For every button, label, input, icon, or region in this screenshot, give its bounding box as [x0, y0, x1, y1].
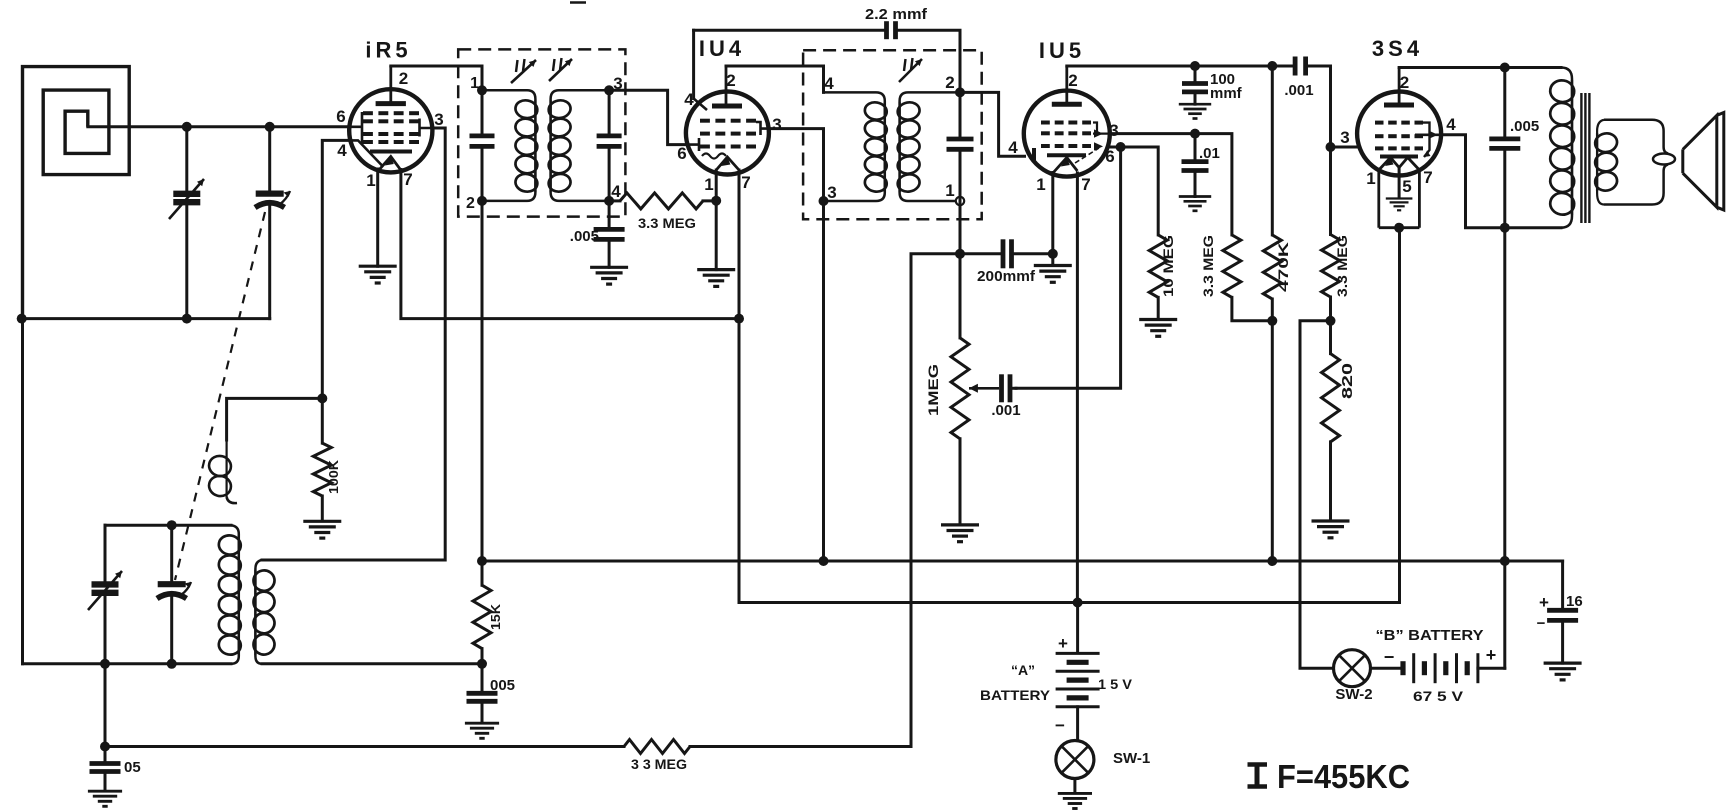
- label IF=455KC: [1248, 758, 1411, 795]
- junction R2 / 1U4 pin1: [711, 196, 721, 206]
- svg-text:2: 2: [466, 195, 475, 212]
- svg-text:.005: .005: [570, 228, 599, 245]
- oscillator tickler coil: [207, 440, 237, 503]
- ground 16 mfd: [1544, 663, 1582, 680]
- label 100K: [326, 459, 341, 494]
- loop antenna spiral: [23, 67, 130, 319]
- 1U4 pin 3: [772, 115, 781, 134]
- label 15K: [488, 603, 503, 630]
- wire C4 top lead: [104, 525, 107, 581]
- wire 3.3MEG2 top: [1329, 147, 1332, 235]
- wire T1 C4 bottom: [608, 149, 611, 201]
- 1R5 grids: [363, 113, 419, 142]
- 3S4 pin4 arrow: [1415, 131, 1441, 139]
- svg-text:4: 4: [611, 182, 621, 201]
- svg-text:+: +: [1539, 593, 1549, 612]
- 3S4 filament return box: [1379, 170, 1420, 228]
- wire AVC bus vertical: [911, 254, 960, 747]
- wire 2.2mmf right to T2 pin2: [899, 30, 960, 92]
- 1R5 pin 2: [399, 69, 408, 88]
- label tube 1U4: [699, 36, 745, 61]
- label 3.3 MEG vertical 1: [1200, 235, 1216, 297]
- wire SW-2 to B battery: [1371, 667, 1404, 670]
- tube 1U4 envelope: [686, 92, 769, 175]
- wire 1U5 pin7 to filament rail: [1076, 173, 1079, 603]
- svg-text:1 5 V: 1 5 V: [1098, 676, 1133, 692]
- label mmf: [1210, 85, 1243, 102]
- junction .005 top: [1500, 63, 1510, 73]
- wire T2 pin2 to 1U5 pin4: [960, 92, 1025, 156]
- junction filament box: [1394, 223, 1404, 233]
- svg-text:7: 7: [403, 170, 412, 189]
- svg-text:4: 4: [1008, 138, 1018, 157]
- wire antenna return down left side: [21, 319, 24, 664]
- 1U4 grid bracket: [687, 138, 700, 151]
- wire 200mmf left: [960, 252, 1000, 255]
- osc pickup coil: [255, 560, 262, 664]
- wire 3S4 screen to B+: [1441, 135, 1505, 228]
- capacitor C1 RF tuning (variable): [173, 194, 200, 202]
- capacitor T1 secondary padding: [597, 136, 622, 147]
- ground 1 MEG: [941, 525, 979, 542]
- svg-text:.001: .001: [991, 402, 1020, 419]
- wire B+ riser from battery: [1503, 228, 1506, 669]
- 3S4 pin 2: [1400, 73, 1409, 92]
- label 1 MEG: [925, 364, 941, 416]
- wire .005 top: [481, 664, 484, 691]
- junction 100K / tickler: [317, 393, 327, 403]
- ground .01: [1179, 197, 1211, 211]
- label 470K: [1275, 242, 1291, 292]
- T1 pin 3: [613, 74, 622, 93]
- 1R5 filament: [379, 157, 401, 171]
- wire .05 to ground: [104, 774, 107, 790]
- T1 pin 3 node: [604, 85, 614, 95]
- 1R5 pin 3: [434, 110, 443, 129]
- wire 1U4 pin4 feedback riser: [692, 30, 695, 98]
- wire 1R5 pin1 to ground: [376, 169, 379, 266]
- wire C6 to ground: [608, 242, 611, 267]
- svg-text:3: 3: [1340, 128, 1349, 147]
- svg-text:+: +: [1486, 645, 1497, 665]
- wire 1U4 pin1 to ground: [715, 170, 718, 270]
- capacitor 200 mmf: [1003, 239, 1012, 268]
- 1U5 pin 7: [1081, 175, 1090, 194]
- wire C2 bottom lead: [268, 206, 271, 319]
- svg-text:.01: .01: [1199, 145, 1220, 162]
- capacitor .001 AF coupling: [1002, 374, 1011, 402]
- svg-text:“A”: “A”: [1011, 662, 1035, 678]
- junction AVC rail / antenna return: [17, 314, 27, 324]
- wire A battery top: [1076, 603, 1079, 652]
- wire 3.3MEG to 470K: [1232, 297, 1272, 320]
- label A: [1011, 662, 1035, 678]
- T2 pin 2 node: [955, 87, 965, 97]
- svg-text:.001: .001: [1284, 82, 1313, 99]
- battery B 67.5V: [1403, 653, 1478, 683]
- wire 3S4 pin5 lead: [1398, 168, 1401, 198]
- svg-text:BATTERY: BATTERY: [980, 687, 1051, 703]
- wire 15K bottom: [481, 649, 484, 664]
- svg-text:2: 2: [399, 69, 408, 88]
- wire 1R5 pin7 filament rail: [401, 170, 739, 319]
- junction filament rail / 1U4 pin7: [734, 314, 744, 324]
- wire 1R5 pin3 to osc pickup coil: [262, 128, 445, 560]
- wire T1 pin3 to 1U4 pin6: [609, 90, 686, 144]
- svg-text:F=455KC: F=455KC: [1277, 758, 1410, 795]
- label .001 AF: [991, 402, 1020, 419]
- junction C1 / AVC rail: [182, 314, 192, 324]
- svg-text:“B” BATTERY: “B” BATTERY: [1376, 627, 1484, 644]
- wire 16mfd to ground: [1561, 623, 1564, 663]
- svg-text:6: 6: [336, 107, 345, 126]
- wire 100mmf top: [1194, 66, 1197, 81]
- svg-text:3: 3: [1109, 121, 1118, 140]
- 1R5 pin 7: [403, 170, 412, 189]
- label .01: [1199, 145, 1220, 162]
- 1U4 grids: [700, 121, 756, 147]
- svg-text:3: 3: [434, 110, 443, 129]
- resistor 820: [1322, 354, 1340, 442]
- T3 secondary loops: [1594, 132, 1619, 193]
- T3 secondary / voice coil: [1597, 120, 1675, 205]
- svg-text:7: 7: [741, 173, 750, 192]
- junction T2 pin1 / 200mmf / 1MEG: [955, 249, 965, 259]
- 1U5 pin 6: [1105, 147, 1114, 166]
- wire 100K top: [321, 398, 324, 443]
- svg-text:2: 2: [1400, 73, 1409, 92]
- label + 16mfd: [1539, 593, 1549, 612]
- T1 trimmer arrow left: [511, 60, 536, 83]
- wire T1 C3 bottom: [481, 149, 484, 201]
- wire 100mmf to ground: [1194, 94, 1197, 104]
- svg-text:1: 1: [366, 171, 375, 190]
- IF transformer T2 shield (dashed): [803, 50, 982, 219]
- capacitor 100 mmf: [1182, 84, 1208, 92]
- label 005: [490, 677, 515, 694]
- label tube 3S4: [1372, 36, 1423, 61]
- 1R5 pin 6: [336, 107, 345, 126]
- svg-text:3S4: 3S4: [1372, 36, 1423, 61]
- 1R5 grid cap bar: [370, 150, 412, 154]
- wire 820 to ground: [1329, 442, 1332, 520]
- 1U5 pin 1: [1036, 175, 1045, 194]
- node antenna/C1: [182, 122, 192, 132]
- junction screen line / B+ rail: [819, 556, 829, 566]
- wire 1U4 plate to T2 pin4: [726, 66, 824, 92]
- resistor R2 3.3 MEG: [620, 193, 703, 209]
- svg-text:3: 3: [772, 115, 781, 134]
- T2 pin 4: [824, 74, 834, 93]
- wire 100K to ground: [321, 496, 324, 520]
- svg-text:2.2 mmf: 2.2 mmf: [865, 6, 928, 23]
- resistor 15K: [473, 585, 491, 648]
- resistor 3.3 MEG (grid): [1322, 235, 1340, 298]
- wire 1U5 plate rail: [1067, 65, 1295, 68]
- resistor 10 MEG: [1149, 235, 1167, 298]
- svg-text:820: 820: [1339, 363, 1356, 399]
- wire 1U4 screen to B+ rail: [769, 129, 824, 561]
- junction 3.3MEG2/820/SW2: [1326, 316, 1336, 326]
- wire B+ rail: [482, 560, 1563, 563]
- label 200 mmf: [977, 268, 1036, 285]
- wire T2 pin1 down: [959, 201, 962, 254]
- wire 3.3MEG2 bottom: [1329, 297, 1332, 321]
- wire 1R5 plate to T1 pin1: [391, 66, 482, 90]
- wire T3 primary bottom: [1505, 226, 1561, 229]
- wire C5 top lead: [170, 525, 173, 581]
- speaker: [1683, 113, 1724, 211]
- wire C4 bottom lead: [104, 594, 107, 664]
- svg-text:−: −: [1055, 716, 1065, 735]
- 1U4 pin 7: [741, 173, 750, 192]
- pickup coil loops: [252, 569, 276, 657]
- wire 10MEG to ground: [1157, 297, 1160, 318]
- wire SW-1 to ground: [1073, 779, 1076, 793]
- ground 1U5 pin 1: [1034, 266, 1072, 283]
- wire B battery to B+ riser: [1478, 667, 1505, 670]
- wire C1 top lead: [185, 127, 188, 191]
- label tube 1R5: [365, 38, 411, 63]
- 3S4 grids: [1375, 123, 1423, 149]
- 1MEG wiper arrow: [969, 384, 999, 393]
- wire .001 right: [1013, 387, 1016, 390]
- wire AVC bus bottom left: [105, 745, 624, 748]
- 3S4 pin 3: [1340, 128, 1349, 147]
- label 2.2 mmf: [865, 6, 928, 23]
- wire .005 to ground: [481, 704, 484, 723]
- T3 core: [1581, 93, 1589, 223]
- svg-text:100K: 100K: [326, 459, 341, 494]
- wire tickler top: [227, 398, 323, 440]
- potentiometer 1 MEG: [951, 338, 969, 439]
- wire 1U5 pin3: [1110, 134, 1232, 235]
- svg-text:5: 5: [1402, 177, 1411, 196]
- label SW-1: [1113, 750, 1150, 767]
- wire .001 to 3S4 grid: [1306, 66, 1331, 147]
- svg-text:−: −: [1537, 615, 1546, 632]
- svg-text:4: 4: [824, 74, 834, 93]
- svg-text:200mmf: 200mmf: [977, 268, 1036, 285]
- wire tank bottom: [23, 662, 232, 665]
- label + B battery: [1486, 645, 1497, 665]
- ground 1R5 pin 1: [359, 266, 397, 283]
- label - B battery: [1384, 647, 1395, 667]
- wire T2 C7 bottom: [959, 152, 962, 201]
- capacitor C6 .005: [594, 229, 625, 239]
- wire T1 pin4 to R2: [609, 199, 620, 202]
- 1R5 pin4 lead-in: [350, 140, 383, 166]
- label 3.3 MEG vertical 2: [1334, 235, 1350, 297]
- T3 primary: [1561, 68, 1572, 228]
- junction 3S4 grid: [1326, 142, 1336, 152]
- wire C5 bottom lead: [170, 596, 173, 664]
- capacitor T2 tuning: [947, 139, 974, 149]
- svg-text:SW-1: SW-1: [1113, 750, 1150, 767]
- capacitor .001 coupling: [1295, 57, 1306, 76]
- wire .05 top: [104, 747, 107, 762]
- 1U5 pin 4: [1008, 138, 1018, 157]
- T1 pin 1 node: [477, 85, 487, 95]
- svg-text:1: 1: [470, 75, 479, 92]
- svg-text:−: −: [1384, 647, 1395, 667]
- 1R5 grid bracket right: [420, 119, 433, 137]
- svg-text:3.3 MEG: 3.3 MEG: [638, 215, 696, 231]
- svg-text:6: 6: [1105, 147, 1114, 166]
- 1U5 pin 2: [1068, 71, 1077, 90]
- wire 470K top: [1271, 66, 1274, 235]
- svg-text:1: 1: [1036, 175, 1045, 194]
- 1R5 grid bracket left: [350, 112, 362, 144]
- node antenna/C2: [265, 122, 275, 132]
- T2 primary winding: [824, 92, 885, 201]
- wire .005 top lead: [1503, 68, 1506, 137]
- svg-text:.005: .005: [1510, 118, 1539, 135]
- 1U4 filament: [716, 157, 739, 170]
- ground .05: [88, 791, 122, 806]
- resistor 100K: [313, 443, 331, 496]
- capacitor 2.2 mmf: [887, 21, 896, 39]
- junction 1U5 pin6: [1116, 142, 1126, 152]
- resistor 470K: [1263, 235, 1281, 299]
- wire 1U5 pin1 to ground: [1051, 173, 1054, 265]
- wire to 3S4 pin3: [1331, 146, 1360, 149]
- label SW-2: [1335, 686, 1372, 703]
- 1U5 diode plate: [1034, 148, 1086, 162]
- wire 3S4 plate to output transformer: [1399, 66, 1505, 69]
- switch SW-2: [1334, 650, 1371, 687]
- 1U5 filament: [1054, 158, 1078, 173]
- svg-text:IU5: IU5: [1039, 38, 1085, 63]
- ground 3S4 pin 5: [1386, 199, 1413, 211]
- label BATTERY A: [980, 687, 1051, 703]
- wire 16mfd top: [1561, 561, 1564, 608]
- wire 200mmf right: [1015, 252, 1053, 255]
- T1 pin 2 node: [477, 196, 487, 206]
- ground SW-1: [1058, 793, 1092, 808]
- junction 470K: [1267, 61, 1277, 71]
- wire to T3 primary top: [1505, 66, 1561, 69]
- wire .01 to ground: [1194, 173, 1197, 197]
- 3S4 pin 4: [1446, 115, 1456, 134]
- svg-text:470K: 470K: [1275, 242, 1291, 292]
- svg-text:15K: 15K: [488, 603, 503, 630]
- tube 3S4 envelope: [1357, 92, 1441, 176]
- tube 1R5 envelope: [349, 89, 432, 172]
- svg-text:4: 4: [1446, 115, 1456, 134]
- wire T1 pin4 to C6: [608, 201, 611, 227]
- svg-text:2: 2: [1068, 71, 1077, 90]
- T1 trimmer mark right: [553, 58, 562, 71]
- label + A battery: [1058, 634, 1068, 653]
- svg-text:3: 3: [827, 183, 836, 202]
- label 1.5V: [1098, 676, 1133, 692]
- 3S4 pin 7: [1423, 168, 1432, 187]
- junction 100mmf: [1190, 61, 1200, 71]
- capacitor .005 bypass: [467, 693, 498, 701]
- 1U5 pin 3: [1109, 121, 1118, 140]
- junction B+ rail / 15K: [477, 556, 487, 566]
- wire to SW-2: [1300, 321, 1334, 668]
- label B BATTERY: [1376, 627, 1484, 644]
- 1R5 pin 4: [337, 141, 347, 160]
- oscillator tank coil: [231, 525, 239, 664]
- tube 1U5 envelope: [1024, 91, 1110, 177]
- label C6 .005: [570, 228, 599, 245]
- capacitor .01: [1182, 162, 1209, 171]
- 3S4 beam plate bar: [1380, 155, 1418, 159]
- 3S4 plate: [1384, 68, 1414, 106]
- junction 15K / .005 / pickup coil: [477, 659, 487, 669]
- 1U4 pin 4: [684, 90, 694, 109]
- wire T1 C4 top: [608, 90, 611, 133]
- T1 secondary winding: [551, 90, 610, 201]
- wire 3S4 filament to A+ rail: [1398, 228, 1401, 603]
- T1 trimmer arrow right: [549, 59, 572, 81]
- 1U4 grid bracket right: [756, 122, 769, 135]
- svg-text:10 MEG: 10 MEG: [1160, 235, 1176, 297]
- wire tank top: [105, 524, 231, 527]
- svg-text:SW-2: SW-2: [1335, 686, 1372, 703]
- svg-text:1MEG: 1MEG: [925, 364, 941, 416]
- T2 pin 1: [945, 181, 954, 200]
- wire 820 top: [1329, 321, 1332, 354]
- wire 1MEG top: [959, 254, 962, 338]
- T1 pin 4: [611, 182, 621, 201]
- 1U4 plate: [712, 66, 742, 106]
- arrow C1 variable: [169, 179, 204, 219]
- junction T2 pin3 / screen line: [819, 196, 829, 206]
- svg-text:3.3 MEG: 3.3 MEG: [1334, 235, 1350, 297]
- svg-text:1: 1: [945, 181, 954, 200]
- svg-text:16: 16: [1566, 593, 1583, 610]
- ground .005 bypass: [465, 723, 499, 738]
- svg-text:3.3 MEG: 3.3 MEG: [1200, 235, 1216, 297]
- wire 1R5 pin4 to osc grid: [322, 140, 349, 398]
- svg-text:7: 7: [1423, 168, 1432, 187]
- tank coil loops: [217, 534, 242, 657]
- battery A 1.5V: [1056, 653, 1100, 706]
- junction 470K / B+ rail: [1267, 556, 1277, 566]
- wire C2 top lead: [268, 127, 271, 191]
- capacitor T1 primary padding: [470, 136, 495, 147]
- label 67.5V: [1413, 688, 1464, 704]
- junction C5 bottom: [167, 659, 177, 669]
- capacitor C5 osc trimmer: [157, 582, 191, 599]
- switch SW-1: [1056, 741, 1094, 779]
- T1 trimmer mark left: [516, 59, 525, 72]
- svg-text:mmf: mmf: [1210, 85, 1243, 102]
- ground 1U4 pin 1: [697, 270, 735, 287]
- 3S4 grid bracket right: [1423, 123, 1431, 157]
- wire T2 C7 top: [959, 92, 962, 136]
- T2 pin 3: [827, 183, 836, 202]
- 1R5 plate: [376, 66, 406, 104]
- wire T1 C3 top: [481, 90, 484, 133]
- 1U5 grid bracket right: [1075, 123, 1110, 164]
- 1U4 pin 2: [726, 71, 735, 90]
- junction A battery / filament rail: [1073, 598, 1083, 608]
- 1R5 pin 1: [366, 171, 375, 190]
- junction C4 / AVC: [100, 659, 110, 669]
- wire A battery to SW-1: [1076, 707, 1079, 741]
- T3 primary loops: [1549, 78, 1576, 216]
- T1 secondary loops: [547, 99, 572, 194]
- label .001: [1284, 82, 1313, 99]
- 1U4 pin4 lead-in: [694, 99, 707, 111]
- ground 100K: [303, 521, 341, 538]
- wire 1U5 pin6 to 10MEG: [1108, 147, 1159, 235]
